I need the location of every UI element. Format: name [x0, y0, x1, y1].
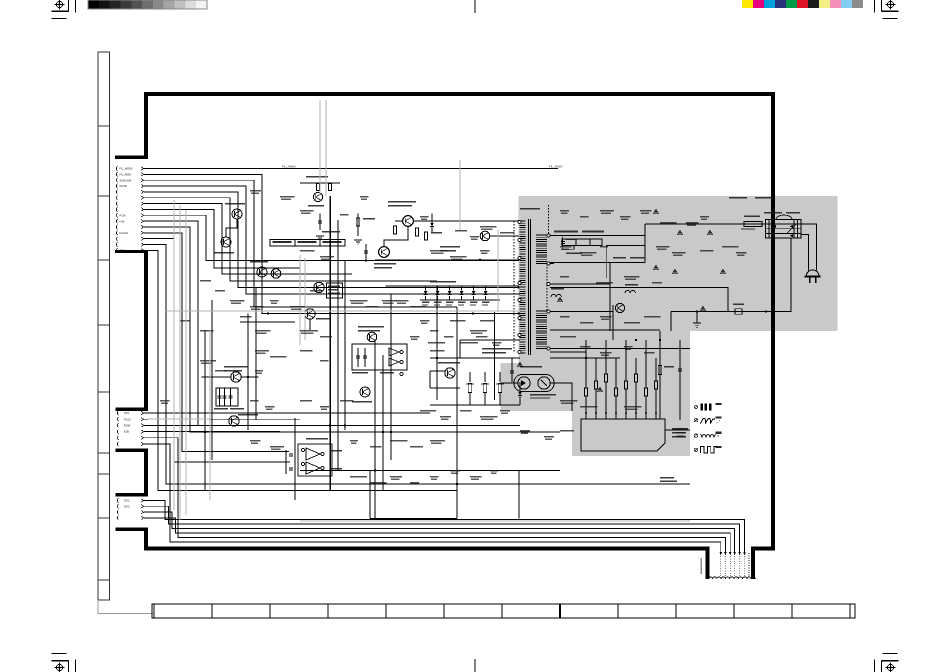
label board [660, 477, 674, 478]
svg-text:FIL_A800V: FIL_A800V [120, 167, 133, 171]
center tick top [474, 0, 476, 13]
label Q205a [328, 286, 340, 287]
wire y313 dots [472, 312, 474, 314]
svg-text:5: 5 [718, 434, 720, 438]
wire q206 stub [309, 319, 311, 330]
wire P901 pin5 [144, 192, 519, 288]
label Q205b [328, 289, 338, 290]
bus x383 [382, 355, 384, 490]
warning symbol 10 [517, 362, 522, 367]
hybrid IC601 block [581, 419, 688, 451]
frame left edge seg3 [144, 449, 148, 497]
wire plug2 [801, 235, 809, 271]
registration mark bottom-left [52, 654, 76, 672]
ground sym3 [693, 323, 701, 327]
degauss pin 4 [729, 552, 732, 555]
wire relay down [671, 239, 791, 312]
wire sec h2 [550, 357, 620, 359]
warning symbol 9 [624, 427, 629, 432]
notch3 top stub [116, 493, 149, 496]
junction t313 [517, 312, 519, 314]
wire d608 [431, 214, 433, 233]
wire P902 pin5 [144, 438, 726, 552]
label RL601b [786, 212, 800, 213]
svg-text:MUTE: MUTE [120, 184, 128, 188]
wire P902 pin1 [144, 412, 430, 414]
bus x256 [255, 288, 257, 421]
schematic frame bottom edge right [751, 546, 775, 550]
label jp [322, 231, 340, 232]
junction x519 y313 [518, 312, 520, 314]
junction relay [696, 310, 698, 312]
wire pc left [501, 382, 518, 384]
degauss coil L951 [708, 577, 755, 579]
degauss pin b5 [724, 552, 727, 555]
wire y259 [375, 259, 519, 261]
wire sec h310 [550, 311, 613, 313]
wire P901 pin8 [144, 209, 300, 268]
wire P902 pin2 [144, 418, 300, 420]
label prim2 [582, 231, 604, 233]
choke bumps 1 [551, 294, 561, 297]
warning symbol 3 [707, 230, 712, 235]
wire P902 pin6 [144, 444, 721, 552]
label prim1 [554, 231, 578, 233]
capacitor C601 [364, 250, 368, 252]
wire P901 pin7 [144, 204, 352, 274]
wire y331 top edge [519, 330, 694, 332]
warning symbol 7 [557, 297, 562, 302]
transistor Q202 [221, 237, 231, 247]
fuse F601 [744, 221, 762, 226]
wire P901 pin14 rail [144, 245, 690, 484]
svg-text:SUB.GND: SUB.GND [120, 178, 132, 182]
wire y518 cross [370, 518, 457, 520]
notch2 top stub [116, 408, 149, 411]
notch1 bottom stub [115, 250, 148, 253]
resistor R602 [424, 232, 427, 240]
label C605b [566, 253, 582, 254]
degauss connector pocket right [751, 547, 755, 580]
AC plug [805, 270, 821, 283]
registration mark bottom-right [875, 654, 899, 672]
transformer T601 [514, 208, 554, 368]
bus x494 [494, 312, 496, 400]
junction y259 [479, 259, 481, 261]
resistor R606 [415, 228, 418, 236]
snubber cluster [430, 340, 522, 405]
svg-text:FIL_A800-: FIL_A800- [120, 172, 132, 176]
label Q203 [250, 261, 268, 262]
wire plug1 [801, 224, 817, 271]
svg-text:FIL_A800V: FIL_A800V [549, 164, 563, 168]
wire FIL_A800V [144, 168, 558, 170]
wire prim to relay [645, 223, 766, 225]
capacitor C611 [678, 368, 682, 370]
bus x295 [294, 418, 296, 500]
junction t287 [517, 286, 519, 288]
label choke2 [625, 284, 638, 285]
svg-text:H.M: H.M [120, 219, 125, 223]
wire P901 pin11 rail [144, 227, 560, 432]
wire Q201-Q202 [226, 219, 237, 237]
wire q604b [413, 220, 519, 222]
label Q202 [214, 252, 234, 253]
bus x212 [211, 300, 213, 460]
label CBA3 [677, 436, 685, 438]
misc small value labels [160, 190, 747, 484]
wire y311 right [697, 311, 771, 313]
connector P902 [117, 411, 143, 446]
photocoupler PC601 [514, 375, 556, 399]
schematic frame bottom edge left [144, 546, 710, 550]
fusible R641 [735, 309, 742, 314]
frame left edge seg2 [144, 250, 148, 411]
transistor Q601 [403, 216, 414, 227]
resistor R405 [356, 218, 359, 226]
label TS08 [755, 197, 773, 199]
dashed drop [548, 205, 550, 234]
registration mark top-left [52, 0, 76, 19]
label Q401b [308, 205, 324, 206]
wire prim link [644, 224, 646, 262]
label R405 [363, 218, 375, 220]
label F601 [744, 216, 760, 217]
wire P901 pin3 cont [456, 307, 458, 519]
bus x345 [344, 260, 346, 430]
wire sec v x660 [659, 331, 661, 420]
transistor Q203 [257, 267, 267, 277]
junction dots [204, 312, 661, 485]
bus x338 [337, 220, 339, 470]
wire pc right [550, 383, 572, 411]
diode row D601-D606 [386, 286, 519, 306]
connector P903 [117, 498, 143, 520]
callout Q205 [327, 283, 343, 298]
choke bumps 2 [625, 290, 635, 293]
degauss pin 2 [738, 552, 741, 555]
error amp cluster IC602 [352, 326, 407, 402]
IC pin network [585, 340, 658, 419]
gray v300 [299, 255, 301, 345]
warning symbol 5 [720, 269, 725, 274]
label CBA [677, 428, 685, 430]
wire P901 pin13 rail [144, 239, 290, 462]
wire sec v586 [585, 350, 587, 358]
fold ruler strip [98, 52, 110, 600]
wire C601 [365, 244, 367, 262]
label Q206 [316, 318, 330, 319]
degauss connector detail [701, 556, 745, 576]
svg-text:DGC: DGC [124, 504, 130, 508]
resistor R402 [317, 184, 320, 191]
warning symbol 4 [672, 269, 677, 274]
wire P901 pin12 rail [144, 233, 289, 452]
frame left edge seg1 [144, 92, 148, 158]
wire sec v x680 [679, 340, 681, 420]
transistor Q604 [480, 231, 490, 241]
wire P901 pin3 [144, 180, 457, 307]
notch3 bottom stub [116, 528, 149, 531]
shaded region primary PSU [501, 196, 838, 456]
transistor Q401 [313, 192, 322, 201]
gray v305 [304, 258, 306, 340]
wire C404 [319, 214, 321, 231]
wire P901 pin6 [144, 198, 437, 281]
wire P903 pin3 [144, 512, 735, 552]
frame left edge seg4 [144, 528, 148, 551]
label R602 [431, 232, 442, 233]
exit arrow y311 [766, 310, 769, 313]
svg-text:E1B: E1B [124, 430, 129, 434]
registration mark top-right [875, 0, 899, 19]
label F601b [741, 228, 755, 229]
rail y322 [240, 321, 295, 323]
bus x205 [204, 330, 206, 490]
svg-text:PLUS: PLUS [124, 417, 131, 421]
bus x248 [247, 314, 249, 431]
label Q602 [374, 263, 396, 265]
wire P903 pin2 [144, 506, 740, 552]
degauss dotted spare [748, 553, 750, 576]
wire x370 down [369, 471, 371, 519]
wire y290 h [550, 283, 610, 285]
ground sym2 [354, 240, 362, 244]
svg-text:FIL_A800V: FIL_A800V [282, 164, 296, 168]
transistor Q603 [615, 303, 624, 312]
degauss pin 1 [743, 552, 746, 555]
bus x391 [390, 294, 392, 460]
wire P902 pin3 [144, 424, 430, 426]
wire c605 [563, 235, 574, 249]
wire P901 pin10 rail [144, 221, 520, 425]
wire Q601-Q602 [384, 226, 408, 246]
warning symbol 8 [597, 387, 602, 392]
light printed wires [148, 100, 690, 521]
label Q401 [306, 176, 328, 178]
degauss connector pocket left [706, 547, 710, 580]
transistor Q201 [232, 209, 242, 219]
label RL601 [764, 212, 782, 214]
wire sec h330 [550, 329, 660, 331]
svg-text:PR1: PR1 [124, 411, 130, 415]
wire sec h350 [550, 351, 586, 353]
degauss pin 3 [733, 552, 736, 555]
warning symbol 2 [677, 230, 682, 235]
svg-text:ROW: ROW [124, 424, 131, 428]
notch2 bottom stub [116, 449, 149, 452]
degauss pin b6 [720, 552, 723, 555]
junction q604 [518, 220, 520, 222]
label amp2 [440, 250, 456, 251]
sub power cluster Q301 [202, 366, 259, 426]
notch1 top stub [115, 155, 148, 158]
wire P903 pin1 [144, 501, 745, 553]
wire q604 [490, 235, 519, 237]
wire sec y287 [550, 288, 728, 312]
transistor Q206 [305, 309, 315, 319]
wire P901 pin4 [144, 186, 520, 294]
transistor Q205 [314, 282, 324, 292]
schematic frame right edge [771, 92, 775, 551]
resistor R601 [393, 226, 396, 234]
snubber box [605, 245, 607, 278]
label PC21 [729, 197, 747, 199]
wire x519 down [518, 471, 520, 519]
AC inlet / relay RL601 [766, 215, 802, 238]
label snub1 [613, 257, 626, 259]
grayscale step wedge [88, 0, 207, 9]
svg-text:P.ON: P.ON [120, 213, 126, 217]
wire prim v3 [609, 262, 611, 331]
wire P901 pin2 [144, 174, 519, 313]
label choke1 [551, 288, 564, 289]
label board2 [660, 481, 677, 482]
label R641 [733, 304, 744, 305]
svg-text:FLASH: FLASH [120, 231, 128, 235]
capacitor C404 [318, 220, 322, 222]
wire ic right [665, 429, 690, 431]
label snub2 [630, 257, 645, 259]
bus x437 [436, 286, 438, 400]
warning symbol 1 [653, 209, 658, 214]
wire P901 pin2 cont [670, 312, 672, 332]
label REG t2 [388, 205, 412, 206]
bus x375 [374, 340, 376, 519]
audio amp IC201 [286, 438, 342, 476]
rail y470 [300, 470, 560, 472]
waveform legend [694, 404, 721, 453]
wire prim bot [550, 261, 645, 263]
wire Q601 base [395, 220, 403, 222]
label amp [440, 246, 460, 248]
warning symbol 6 [700, 306, 705, 311]
resistor R403 [329, 184, 332, 191]
connector P901 [116, 166, 143, 252]
schematic frame top edge [144, 92, 775, 96]
wire P903 pin4 [144, 518, 730, 552]
bottom revision strip [152, 604, 855, 618]
label REG title [388, 201, 416, 203]
snubber box h [606, 244, 645, 246]
label R611 [664, 366, 674, 367]
callout box 2 [562, 239, 602, 246]
warning symbol 11 [653, 265, 658, 270]
capacitor C605 [561, 241, 565, 243]
colour control bar [742, 0, 863, 8]
wire P902 pin4 [144, 431, 280, 433]
page corner line [98, 600, 153, 614]
label C605 [566, 239, 577, 240]
transistor Q602 [379, 247, 390, 258]
label CBA2 [677, 432, 685, 434]
wire gray stub [696, 312, 698, 324]
wire P901 pin15 rail [144, 250, 457, 490]
bus x330 [329, 196, 331, 490]
callout box 1 [270, 240, 345, 247]
label Q201 [225, 203, 245, 205]
label diode row [430, 281, 456, 283]
svg-text:FBP: FBP [120, 249, 125, 253]
label Q205c [328, 293, 340, 294]
wire R405 [357, 214, 359, 237]
transistor Q204 [271, 269, 281, 279]
center tick bottom [474, 659, 476, 672]
wire P901 pin9 [144, 215, 519, 260]
resistor R611 [658, 366, 661, 375]
wire sec h1 [550, 348, 690, 350]
svg-text:DGC: DGC [124, 499, 130, 503]
wire prim top [550, 234, 645, 236]
label Q602b [374, 267, 392, 268]
wire sec v x613 [612, 305, 614, 340]
diode D608 [430, 223, 434, 227]
wire cluster top [300, 182, 340, 184]
ground sym1 [316, 236, 324, 240]
